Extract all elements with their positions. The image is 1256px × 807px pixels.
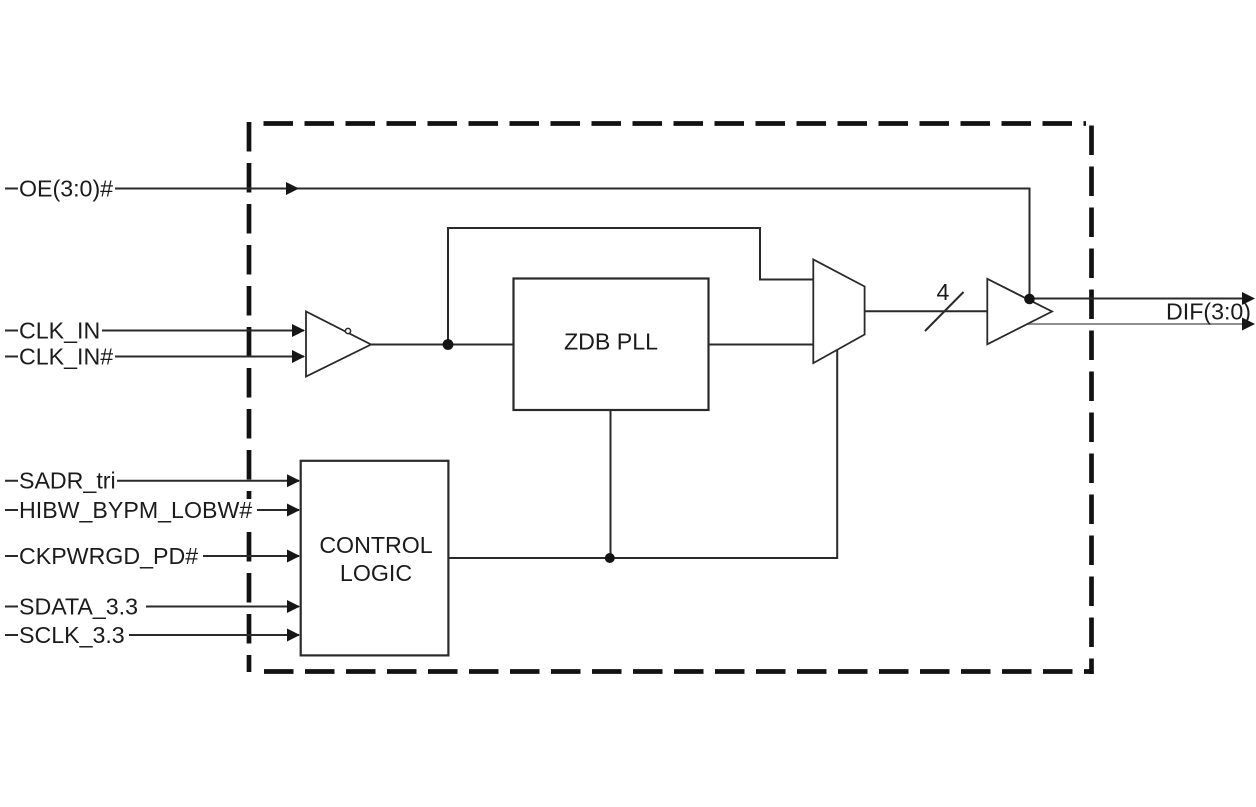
svg-text:CLK_IN: CLK_IN: [19, 318, 100, 344]
svg-text:SADR_tri: SADR_tri: [19, 468, 116, 494]
svg-text:DIF(3:0): DIF(3:0): [1166, 299, 1251, 325]
svg-text:4: 4: [937, 279, 950, 305]
svg-text:LOGIC: LOGIC: [340, 560, 412, 586]
svg-text:SDATA_3.3: SDATA_3.3: [19, 594, 138, 620]
svg-text:CLK_IN#: CLK_IN#: [19, 344, 113, 370]
svg-text:SCLK_3.3: SCLK_3.3: [19, 622, 125, 648]
svg-text:OE(3:0)#: OE(3:0)#: [19, 176, 113, 202]
svg-text:HIBW_BYPM_LOBW#: HIBW_BYPM_LOBW#: [19, 497, 252, 523]
svg-text:CKPWRGD_PD#: CKPWRGD_PD#: [19, 543, 198, 569]
svg-text:ZDB PLL: ZDB PLL: [564, 329, 658, 355]
svg-text:CONTROL: CONTROL: [319, 532, 432, 558]
